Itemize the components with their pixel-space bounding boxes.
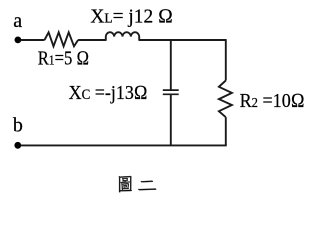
wire R1 to L1	[78, 39, 106, 41]
inductor L1	[106, 32, 139, 41]
caption glyph tu (figure)	[119, 176, 132, 192]
svg-text:XL= j12 Ω: XL= j12 Ω	[90, 5, 172, 27]
svg-text:XC =-j13Ω: XC =-j13Ω	[69, 82, 148, 104]
resistor R2	[219, 81, 232, 118]
wire L1 to top-right corner	[139, 39, 226, 41]
wire a to R1	[21, 39, 45, 41]
resistor R1	[45, 32, 79, 46]
node b	[14, 142, 21, 149]
svg-text:R2 =10Ω: R2 =10Ω	[240, 90, 305, 112]
svg-text:R1=5 Ω: R1=5 Ω	[38, 48, 89, 70]
wire capacitor bottom lead	[170, 94, 172, 145]
caption figure 2	[119, 176, 157, 192]
wire right branch top	[225, 39, 227, 80]
capacitor C1	[163, 90, 179, 94]
wire capacitor top lead	[170, 40, 172, 90]
svg-text:a: a	[13, 10, 22, 32]
caption glyph er (two)	[138, 181, 156, 191]
wire right branch bottom	[225, 117, 227, 145]
svg-text:b: b	[13, 115, 23, 137]
wire bottom	[21, 144, 227, 146]
node a	[15, 37, 22, 44]
